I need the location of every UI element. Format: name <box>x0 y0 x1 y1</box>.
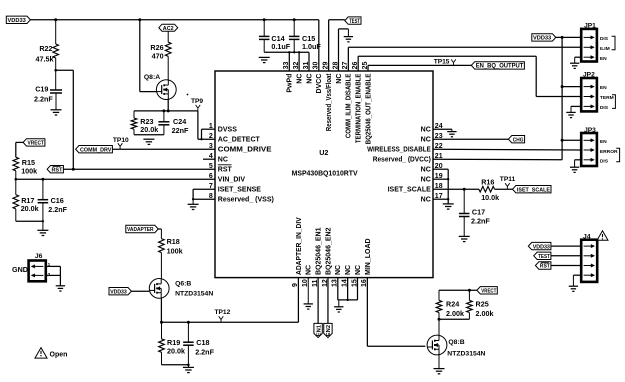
svg-text:EN: EN <box>600 56 607 62</box>
wire JP3 DIS to ground <box>575 160 582 167</box>
connector JP2 <box>581 72 597 112</box>
wire pin16 MIN_LOAD to Q8:B gate <box>367 278 425 347</box>
wire J4-4 to ground <box>573 275 581 286</box>
power flag VDD33 (JP1) <box>532 34 556 42</box>
net flag ISET_SCALE <box>513 186 552 194</box>
net flag RST (J4) <box>535 262 551 270</box>
pin names top <box>287 73 373 144</box>
svg-text:COMM_ILIM_DISABLE: COMM_ILIM_DISABLE <box>346 73 353 138</box>
svg-text:AC_DETECT: AC_DETECT <box>218 137 261 144</box>
ground Q8:B <box>434 369 445 374</box>
svg-text:2.2nF: 2.2nF <box>195 347 214 356</box>
wire TP9 node to pin 2 <box>198 111 215 139</box>
ground JP2 <box>566 112 575 117</box>
wire to JP2 EN <box>562 86 581 88</box>
svg-text:100k: 100k <box>167 246 183 255</box>
svg-text:JP2: JP2 <box>583 72 595 79</box>
wire R24/R25 bottom join <box>438 318 470 321</box>
svg-text:32: 32 <box>293 62 300 70</box>
test point TP12 <box>215 309 231 322</box>
wire to JP3 EN <box>562 139 581 141</box>
svg-text:VIN_DIV: VIN_DIV <box>218 177 246 184</box>
label JP3 pins <box>600 139 618 165</box>
svg-text:20.0k: 20.0k <box>21 204 39 213</box>
pin numbers left 1-8 <box>209 123 213 200</box>
svg-text:18: 18 <box>435 183 443 190</box>
net flag TEST (J4) <box>534 252 551 260</box>
svg-text:TERM: TERM <box>600 95 614 101</box>
svg-text:NC: NC <box>345 265 352 275</box>
svg-text:PwPd: PwPd <box>287 74 294 93</box>
pin names left <box>218 127 274 204</box>
svg-text:23: 23 <box>435 133 443 140</box>
wire R23/C24 bottom bus <box>134 134 164 136</box>
wire pin7 pin8 ground <box>192 189 215 204</box>
svg-text:25: 25 <box>362 62 369 70</box>
svg-text:NC: NC <box>421 197 431 204</box>
wire pin25 to EN_BQ_OUTPUT <box>368 65 471 71</box>
svg-text:TEST: TEST <box>349 18 360 25</box>
svg-text:Reserved_ (VSS): Reserved_ (VSS) <box>218 197 274 204</box>
capacitor C24 <box>158 111 189 135</box>
svg-text:BQ25046_EN1: BQ25046_EN1 <box>316 227 323 275</box>
svg-text:COMM_DRV: COMM_DRV <box>80 147 112 153</box>
svg-text:AC2: AC2 <box>163 26 174 32</box>
svg-text:2.00k: 2.00k <box>446 309 464 318</box>
resistor R26 <box>150 42 171 61</box>
power flag VDD33 (Q6:B gate) <box>109 288 131 296</box>
svg-text:2.2nF: 2.2nF <box>48 205 67 214</box>
label GND <box>12 265 28 274</box>
wire Q8:B source to ground <box>438 355 440 369</box>
ground NC rail <box>443 204 454 209</box>
resistor R17 <box>13 179 39 221</box>
svg-text:DVSS: DVSS <box>218 127 237 134</box>
wire pin 1 to pin 2 net <box>200 129 215 140</box>
svg-text:4: 4 <box>209 153 213 160</box>
svg-text:NC: NC <box>297 74 304 84</box>
wire RST to pin 5 <box>63 168 215 171</box>
ground pins 7/8 <box>188 204 199 209</box>
svg-text:Q6:B: Q6:B <box>175 281 191 288</box>
net flag COMM_DRV <box>76 146 113 154</box>
wire to Q8:B drain <box>438 319 440 336</box>
wire VIN_DIV node <box>15 171 216 181</box>
svg-text:ADAPTER_IN_DIV: ADAPTER_IN_DIV <box>296 217 303 275</box>
svg-text:21: 21 <box>435 153 443 160</box>
svg-text:VADAPTER: VADAPTER <box>127 227 154 233</box>
svg-text:31: 31 <box>303 62 310 70</box>
wire pin27 to JP1 ILIM <box>348 47 581 71</box>
svg-text:1: 1 <box>209 123 213 130</box>
svg-text:2.00k: 2.00k <box>476 309 494 318</box>
pin names right <box>367 127 431 204</box>
net flag AC2 <box>159 24 178 32</box>
wire pin9 to Q6:B node <box>162 278 299 323</box>
svg-text:DVCC: DVCC <box>316 74 323 94</box>
svg-text:24: 24 <box>435 123 443 130</box>
label JP1 pins <box>600 36 610 62</box>
svg-text:C17: C17 <box>472 208 485 217</box>
transistor Q8:A <box>144 74 176 100</box>
svg-text:47.5k: 47.5k <box>36 55 54 64</box>
transistor Q6:B <box>149 279 213 299</box>
wire R26 to Q8:A drain <box>167 56 169 80</box>
junction C16 tap <box>41 178 44 181</box>
svg-text:1.0uF: 1.0uF <box>302 42 321 51</box>
resistor R25 <box>467 290 494 319</box>
svg-text:NTZD3154N: NTZD3154N <box>175 291 213 298</box>
test point TP11 <box>500 176 516 189</box>
junction C14 top <box>263 18 266 21</box>
wire pin22 to JP3 ERROR <box>433 148 581 151</box>
wire R19 to C18 bottom <box>162 364 190 367</box>
capacitor C15 <box>289 20 321 53</box>
svg-text:EN1: EN1 <box>316 324 322 336</box>
svg-text:VDD33: VDD33 <box>8 18 27 24</box>
svg-text:C24: C24 <box>173 117 186 126</box>
op-amp U2 body (MSP430BQ1010RTV) <box>215 71 433 278</box>
svg-text:5: 5 <box>209 163 213 170</box>
ground JP3 <box>570 167 579 172</box>
ground bus below caps <box>264 51 309 71</box>
svg-text:R18: R18 <box>167 237 180 246</box>
svg-text:GND: GND <box>12 265 28 274</box>
svg-text:6: 6 <box>209 173 213 180</box>
wire pin11 to EN1 <box>317 278 319 324</box>
svg-text:WIRELESS_DISABLE: WIRELESS_DISABLE <box>367 147 431 154</box>
ground J4 <box>569 286 578 291</box>
ground pins 13-15 <box>334 307 343 312</box>
svg-text:NC: NC <box>421 177 431 184</box>
svg-text:DIS: DIS <box>600 158 609 164</box>
svg-text:TP10: TP10 <box>113 137 129 144</box>
junction R22 tap <box>54 18 57 21</box>
ground JP1 <box>570 63 579 68</box>
capacitor C16 <box>38 179 68 230</box>
junction VDD vertical top <box>561 36 564 39</box>
bracket JP2 <box>612 95 615 109</box>
svg-text:ILIM: ILIM <box>600 46 610 52</box>
label JP2 pins <box>600 85 614 111</box>
svg-text:2.2nF: 2.2nF <box>34 95 53 104</box>
junction C18 top <box>187 321 190 324</box>
junction JP2 EN tap <box>561 85 564 88</box>
svg-text:28: 28 <box>332 62 339 70</box>
ground below C19 <box>51 110 62 115</box>
svg-text:J4: J4 <box>583 233 591 240</box>
svg-text:VRECT: VRECT <box>28 141 45 147</box>
svg-text:VDD33: VDD33 <box>533 36 552 42</box>
ground pin28 <box>344 37 353 42</box>
svg-text:BQ25046_OUT_ENABLE: BQ25046_OUT_ENABLE <box>365 73 372 144</box>
ground C16 <box>37 220 48 235</box>
wire pin12 to EN2 <box>327 278 329 324</box>
svg-text:R25: R25 <box>476 300 489 309</box>
wire pin23 to CHG <box>433 138 508 140</box>
svg-text:100k: 100k <box>21 167 37 176</box>
svg-text:17: 17 <box>435 193 443 200</box>
wire VDD vertical <box>561 37 563 159</box>
wire TEST to J4-2 <box>551 255 581 257</box>
stub pin 4 <box>203 158 215 160</box>
test point TP9 <box>191 98 203 111</box>
svg-text:EN_BQ_OUTPUT: EN_BQ_OUTPUT <box>476 63 524 70</box>
ground pin10 <box>304 304 313 309</box>
wire VDD33 to J4-1 <box>551 245 581 247</box>
svg-text:ERROR: ERROR <box>600 149 618 155</box>
svg-text:22: 22 <box>435 143 443 150</box>
svg-text:NC: NC <box>421 137 431 144</box>
svg-text:EN2: EN2 <box>326 325 332 336</box>
warning triangle J4 <box>597 231 608 241</box>
wire R17 to C16 bottom <box>16 220 43 222</box>
capacitor C18 <box>183 322 214 367</box>
net flag EN_BQ_OUTPUT <box>471 62 524 70</box>
resistor R16 <box>479 178 499 202</box>
svg-text:JP3: JP3 <box>584 127 596 134</box>
resistor R22 <box>36 20 59 70</box>
svg-text:NC: NC <box>421 127 431 134</box>
svg-text:CHG: CHG <box>513 137 524 143</box>
svg-text:20.0k: 20.0k <box>140 125 158 134</box>
wire VDD33 flag to Q6:B gate <box>131 290 149 292</box>
ground C18/R19 <box>183 367 194 372</box>
wire RST to J4-3 <box>551 265 581 267</box>
resistor R24 <box>436 290 464 319</box>
net flag VDD33 (J4) <box>528 242 551 250</box>
label U2 <box>319 148 328 157</box>
wire VDD33 rail to DVCC pin 30 <box>30 20 318 71</box>
wire R16 to flag <box>495 188 513 190</box>
net flag EN1 <box>314 323 322 337</box>
net flag EN2 <box>324 323 332 337</box>
wire COMM_DRV to pin 3 <box>112 148 215 150</box>
wire JP1 EN to ground <box>575 57 582 63</box>
svg-text:C19: C19 <box>35 85 48 94</box>
node bus R23/C24/TP9 <box>134 109 198 112</box>
connector J4 <box>581 233 597 282</box>
wire AC2 to R26 <box>167 31 169 42</box>
test point TP15 <box>434 59 456 66</box>
svg-text:Reserved_Vss/Float: Reserved_Vss/Float <box>326 73 333 131</box>
wire Q8:A source to node <box>167 100 169 111</box>
svg-text:R22: R22 <box>39 44 52 53</box>
svg-text:NC: NC <box>355 265 362 275</box>
svg-text:VDD33: VDD33 <box>110 289 127 295</box>
svg-text:NC: NC <box>306 74 313 84</box>
svg-text:27: 27 <box>342 62 349 70</box>
net flag CHG <box>508 136 524 144</box>
svg-text:RST: RST <box>540 264 551 270</box>
svg-text:1: 1 <box>48 262 51 268</box>
svg-text:EN: EN <box>600 139 607 145</box>
net flag TEST (top) <box>345 17 361 25</box>
bracket JP3 <box>616 148 619 162</box>
svg-text:TP11: TP11 <box>500 176 516 183</box>
svg-text:J6: J6 <box>35 253 43 260</box>
svg-text:R24: R24 <box>446 300 459 309</box>
svg-text:0.1uF: 0.1uF <box>271 42 290 51</box>
pin numbers top 33-25 <box>283 62 369 70</box>
wire pin26 to JP2 TERM <box>358 56 581 96</box>
wire VADAPTER to R18 <box>158 229 161 239</box>
svg-text:NC: NC <box>306 265 313 275</box>
wire pin18 ISET_SCALE <box>433 188 479 190</box>
wire VRECT to R15 <box>16 142 23 157</box>
svg-text:8: 8 <box>209 193 213 200</box>
svg-text:19: 19 <box>435 173 443 180</box>
svg-text:BQ25046_EN2: BQ25046_EN2 <box>325 227 332 275</box>
pin names bottom <box>296 217 372 275</box>
svg-text:33: 33 <box>283 62 290 70</box>
svg-text:10.0k: 10.0k <box>481 193 499 202</box>
svg-text:NC: NC <box>421 167 431 174</box>
junction C15 top <box>293 18 296 21</box>
svg-text:470: 470 <box>152 52 164 61</box>
svg-text:Q8:A: Q8:A <box>144 74 160 81</box>
wire VDD33 to JP1 DIS <box>556 36 581 38</box>
wire J6 pins to ground <box>46 266 61 285</box>
junction C17 tap <box>463 188 466 191</box>
svg-text:TP9: TP9 <box>191 98 203 105</box>
net flag RST (left) <box>47 166 63 174</box>
capacitor C14 <box>259 20 291 53</box>
svg-text:2: 2 <box>209 133 213 140</box>
capacitor C17 <box>459 189 490 236</box>
power flag VDD33 (top left) <box>6 16 30 24</box>
connector J6 <box>29 253 46 281</box>
net flag VRECT (left) <box>23 139 45 147</box>
svg-text:Open: Open <box>50 352 68 359</box>
warning triangle Open <box>35 348 67 359</box>
bracket JP1 <box>612 36 615 50</box>
svg-text:2.2nF: 2.2nF <box>471 217 490 226</box>
junction JP3 EN tap <box>561 139 564 142</box>
connector JP1 <box>581 23 597 62</box>
svg-text:ISET_SCALE: ISET_SCALE <box>388 187 432 194</box>
resistor R18 <box>159 237 183 255</box>
ground J6 <box>56 286 65 291</box>
svg-text:20: 20 <box>435 163 443 170</box>
svg-text:DIS: DIS <box>600 36 609 42</box>
wire Q8:A gate <box>140 20 157 92</box>
svg-text:30: 30 <box>313 62 320 70</box>
ground pin24 <box>447 132 456 137</box>
svg-text:TP12: TP12 <box>215 309 231 316</box>
svg-text:NTZD3154N: NTZD3154N <box>447 350 485 357</box>
svg-text:22nF: 22nF <box>172 126 189 135</box>
svg-text:Q8:B: Q8:B <box>448 339 464 346</box>
wire pins 13-15 ground bus <box>338 278 358 307</box>
pin numbers right 24-17 <box>435 123 443 200</box>
wire R22 bottom to RST vertical <box>54 69 73 169</box>
transistor Q8:B <box>427 335 485 357</box>
net flag VRECT (right) <box>477 287 497 295</box>
svg-text:MIN_LOAD: MIN_LOAD <box>365 238 372 275</box>
svg-text:JP1: JP1 <box>584 23 596 30</box>
svg-text:ISET_SCALE: ISET_SCALE <box>517 187 550 193</box>
resistor R15 <box>13 157 37 175</box>
svg-text:VDD33: VDD33 <box>533 244 550 250</box>
svg-text:NC: NC <box>336 74 343 84</box>
ground C17 <box>459 236 470 241</box>
resistor R23 <box>131 111 158 135</box>
test point TP10 <box>113 137 129 149</box>
ground below C14 <box>259 57 270 62</box>
svg-text:C18: C18 <box>196 338 209 347</box>
svg-text:U2: U2 <box>319 148 328 157</box>
svg-text:RST: RST <box>218 167 233 174</box>
connector JP3 <box>581 127 597 166</box>
wire pin24 to ground <box>433 129 452 131</box>
svg-text:ISET_SENSE: ISET_SENSE <box>218 187 262 194</box>
wire pin10 ground <box>307 278 309 304</box>
wire Q6:B source to node <box>160 298 163 324</box>
svg-text:NC: NC <box>335 265 342 275</box>
junction Q8:A gate branch <box>138 18 141 21</box>
svg-text:COMM_DRIVE: COMM_DRIVE <box>218 147 272 154</box>
svg-text:DIS: DIS <box>600 105 609 111</box>
svg-text:RST: RST <box>52 167 63 173</box>
svg-text:7: 7 <box>209 183 213 190</box>
svg-text:R26: R26 <box>150 43 163 52</box>
svg-text:VRECT: VRECT <box>481 289 496 295</box>
wire pin28 to ground <box>339 29 349 71</box>
wire pin21 to VDD vertical <box>433 158 562 161</box>
wire NC pins ground rail <box>433 169 449 204</box>
svg-text:TERMINATION_ENABLE: TERMINATION_ENABLE <box>356 73 363 143</box>
svg-text:29: 29 <box>322 62 329 70</box>
net flag VADAPTER <box>126 225 158 233</box>
svg-text:3: 3 <box>209 143 213 150</box>
svg-text:MSP430BQ1010RTV: MSP430BQ1010RTV <box>292 169 358 178</box>
ground below R23/C24 <box>143 139 154 144</box>
capacitor C19 <box>34 70 62 110</box>
svg-text:TEST: TEST <box>538 254 550 260</box>
wire R18 to Q6:B drain <box>160 253 162 279</box>
pin numbers bottom 9-16 <box>292 279 368 287</box>
svg-text:26: 26 <box>352 62 359 70</box>
svg-text:TP15: TP15 <box>434 59 450 66</box>
wire JP2 DIS to ground <box>571 106 581 112</box>
wire R24/R25 top <box>439 289 477 292</box>
svg-text:Reserved_ (DVCC): Reserved_ (DVCC) <box>373 157 431 164</box>
svg-text:20.0k: 20.0k <box>167 346 185 355</box>
svg-text:EN: EN <box>600 85 607 91</box>
svg-text:NC: NC <box>218 157 228 164</box>
svg-text:R16: R16 <box>481 178 494 187</box>
svg-text:C16: C16 <box>51 196 64 205</box>
wire pin29 to TEST <box>329 20 345 71</box>
resistor R19 <box>159 322 185 365</box>
stray dot <box>187 94 189 96</box>
label J6 pin numbers <box>48 262 51 278</box>
label MSP430BQ1010RTV <box>292 169 358 178</box>
